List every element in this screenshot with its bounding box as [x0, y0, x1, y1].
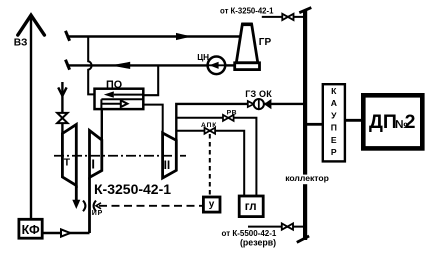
- svg-text:КФ: КФ: [22, 223, 40, 237]
- svg-text:II: II: [164, 158, 171, 172]
- pump CN: [208, 57, 235, 75]
- wire pipe2 down to PO water-in: [143, 65, 158, 95]
- regulator U box: [203, 197, 220, 212]
- steam inlet wire with arrow: [58, 82, 66, 134]
- valve APK: [205, 128, 216, 134]
- svg-text:от К-3250-42-1: от К-3250-42-1: [220, 6, 274, 15]
- KAUPER box: [323, 84, 345, 161]
- compressor section II: [163, 133, 177, 178]
- wire PO air-out to section II: [143, 105, 162, 133]
- wire PO water-out up to pipe1 (with hop over pipe2): [88, 37, 94, 95]
- svg-text:ЦН: ЦН: [197, 53, 209, 62]
- cooling tower GR: [235, 24, 260, 69]
- compressor section I: [90, 131, 102, 178]
- svg-text:АПК: АПК: [201, 122, 217, 129]
- svg-text:Р: Р: [331, 147, 337, 157]
- svg-text:ИР: ИР: [92, 210, 103, 217]
- svg-text:ДП: ДП: [369, 111, 397, 133]
- water pipe 1 (to cooling tower): [66, 31, 241, 41]
- svg-text:(резерв): (резерв): [240, 237, 276, 247]
- svg-text:ГЗ ОК: ГЗ ОК: [245, 89, 272, 99]
- discharge wire section II to collector (OK line): [176, 104, 303, 170]
- svg-text:К-3250-42-1: К-3250-42-1: [94, 181, 171, 197]
- svg-text:РВ: РВ: [227, 110, 237, 117]
- dashed control line APK valve to U: [209, 134, 211, 197]
- blow-off wire RV to silencer: [176, 118, 256, 196]
- valve on bottom wire: [282, 224, 293, 230]
- gate valve GZ: [248, 99, 264, 109]
- svg-text:ГР: ГР: [259, 37, 272, 48]
- svg-text:гл: гл: [245, 201, 257, 213]
- svg-text:У: У: [331, 110, 337, 120]
- flow orifice IR on suction wire: [83, 201, 96, 212]
- valve RV: [223, 115, 234, 121]
- steam valve: [57, 113, 67, 123]
- open flow arrow on suction wire: [61, 229, 70, 236]
- valve on top wire: [282, 14, 293, 20]
- svg-text:у: у: [209, 199, 215, 210]
- svg-text:К: К: [331, 86, 337, 96]
- svg-text:I: I: [91, 157, 95, 172]
- wire from K-3250 (top): [262, 16, 303, 18]
- svg-text:Е: Е: [331, 135, 337, 145]
- wire collector to KAUPER: [307, 123, 323, 126]
- svg-text:2: 2: [405, 111, 416, 133]
- svg-text:П: П: [331, 123, 337, 133]
- turbine T: [62, 125, 76, 186]
- check valve OK: [264, 99, 272, 109]
- svg-text:Т: Т: [64, 157, 71, 168]
- anti-surge wire APK to silencer: [176, 131, 244, 196]
- blast furnace DP No2 box: [363, 95, 422, 148]
- turbine exhaust wire with arrow: [72, 186, 80, 210]
- svg-text:А: А: [331, 98, 337, 108]
- air intake arrow VZ: [18, 15, 45, 219]
- wire KAUPER to DP2: [345, 119, 363, 122]
- filter KF box: [19, 219, 42, 238]
- suction wire KF to compressor I: [42, 177, 89, 233]
- dashed impulse line IR to U: [96, 203, 204, 209]
- water pipe 2 (from pump): [66, 60, 208, 70]
- silencer GL box: [239, 196, 263, 217]
- label kollektor: [284, 173, 329, 184]
- wire from K-5500 (bottom reserve): [248, 226, 303, 228]
- wire PO air-in from section I: [101, 109, 103, 140]
- intercooler PO: [95, 89, 144, 109]
- svg-text:ВЗ: ВЗ: [14, 38, 28, 49]
- shaft centerline: [54, 155, 186, 157]
- collector main line: [297, 8, 312, 243]
- svg-text:ПО: ПО: [106, 79, 122, 91]
- svg-text:коллектор: коллектор: [285, 173, 329, 183]
